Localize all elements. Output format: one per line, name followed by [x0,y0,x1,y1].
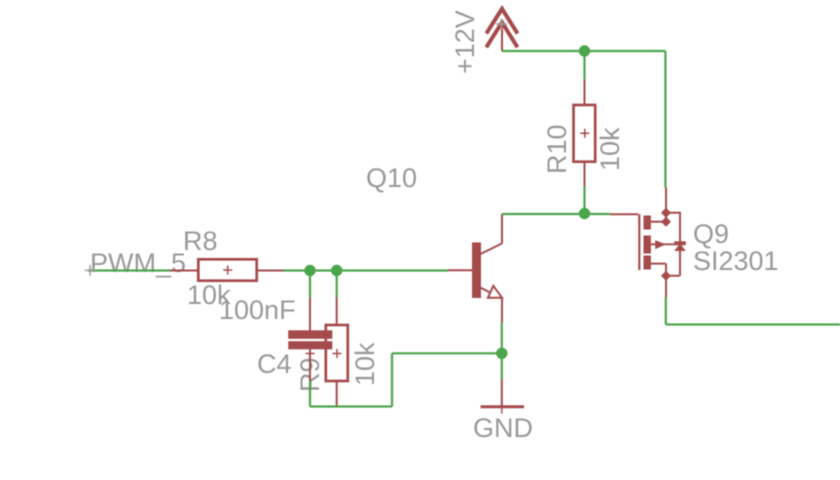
svg-text:10k: 10k [350,342,380,386]
svg-text:Q9: Q9 [693,219,729,249]
svg-text:SI2301: SI2301 [693,246,779,276]
svg-text:R8: R8 [183,226,218,256]
svg-text:10k: 10k [595,127,625,171]
svg-text:PWM_5: PWM_5 [90,248,186,278]
svg-text:R10: R10 [542,124,572,174]
svg-text:100nF: 100nF [219,295,296,325]
svg-text:GND: GND [473,413,533,443]
svg-text:C4: C4 [257,349,292,379]
svg-text:Q10: Q10 [366,163,417,193]
svg-text:+12V: +12V [450,10,480,74]
